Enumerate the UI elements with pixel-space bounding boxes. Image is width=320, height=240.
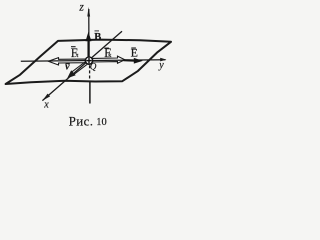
svg-text:y: y bbox=[158, 60, 164, 71]
svg-text:B: B bbox=[94, 32, 101, 43]
svg-text:x: x bbox=[43, 99, 49, 110]
svg-text:Рис.: Рис. bbox=[69, 113, 94, 128]
svg-text:10: 10 bbox=[96, 117, 107, 128]
svg-text:Q: Q bbox=[90, 62, 97, 72]
svg-text:z: z bbox=[78, 1, 84, 13]
